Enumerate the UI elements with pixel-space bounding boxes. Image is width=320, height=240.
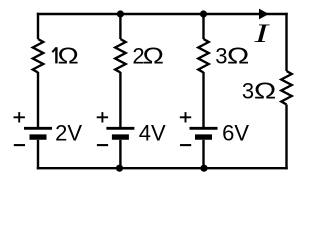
svg-text:Ω: Ω <box>254 78 276 104</box>
svg-text:2V: 2V <box>55 121 82 146</box>
svg-text:4V: 4V <box>139 121 166 146</box>
svg-text:Ω: Ω <box>227 42 249 68</box>
svg-text:Ω: Ω <box>58 42 79 68</box>
svg-text:I: I <box>253 19 270 48</box>
svg-text:6V: 6V <box>222 121 249 146</box>
svg-text:3: 3 <box>215 43 227 68</box>
svg-text:3: 3 <box>242 79 254 104</box>
svg-text:Ω: Ω <box>143 42 164 68</box>
